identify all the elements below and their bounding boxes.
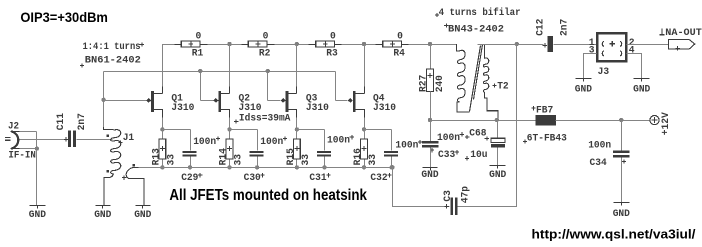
wire T2 to C12 xyxy=(478,44,517,46)
svg-text:1:4:1 turns: 1:4:1 turns xyxy=(83,42,141,53)
svg-text:J310: J310 xyxy=(373,103,396,114)
label Idss=39mA xyxy=(234,120,238,124)
wire J2 to ground xyxy=(36,149,38,206)
label 10u xyxy=(465,156,469,160)
svg-text:C68: C68 xyxy=(469,129,486,140)
wire J3 pin 4 to ground xyxy=(627,54,642,79)
terminal +12V xyxy=(650,116,659,125)
capacitor C3 47p xyxy=(444,204,448,208)
wire gate Q3 xyxy=(268,100,281,102)
svg-text:IF-IN: IF-IN xyxy=(8,151,36,162)
node R27 bottom xyxy=(428,118,432,122)
svg-text:GND: GND xyxy=(421,170,438,181)
ground GND under J1 source winding xyxy=(142,206,144,209)
svg-text:R14: R14 xyxy=(219,148,230,165)
node output feedback xyxy=(515,42,519,46)
ground GND under J2 xyxy=(37,206,39,209)
transformer T2 bifilar link xyxy=(470,46,481,112)
wire drain chain left corner xyxy=(163,45,182,94)
svg-text:R16: R16 xyxy=(353,148,364,165)
svg-text:47p: 47p xyxy=(461,186,472,203)
svg-text:J310: J310 xyxy=(306,103,329,114)
transistor Q1 J310 xyxy=(162,87,164,94)
node drain Q4 xyxy=(362,42,366,46)
node T2 bottom xyxy=(495,118,499,122)
connector J2 xyxy=(11,131,18,148)
node source Q1 xyxy=(160,127,164,131)
svg-text:2n7: 2n7 xyxy=(77,113,88,130)
transformer J1 winding xyxy=(104,127,114,130)
wire source Q4 xyxy=(364,118,366,130)
svg-text:0: 0 xyxy=(330,31,336,42)
polarity dot J1 source winding xyxy=(133,164,135,166)
connector J3 xyxy=(597,33,626,61)
resistor R16 33 xyxy=(364,130,366,140)
node cap 3 bottom xyxy=(322,165,326,169)
node C34 top xyxy=(619,118,623,122)
ground GND J3 pin 3 xyxy=(583,79,585,82)
capacitor bypass 100n stage 3 xyxy=(324,130,326,151)
node R15 bottom xyxy=(295,165,299,169)
resistor R27 240 xyxy=(430,45,432,70)
svg-text:4 turns bifilar: 4 turns bifilar xyxy=(439,7,521,19)
svg-text:R3: R3 xyxy=(326,49,338,60)
node source Q4 xyxy=(362,127,366,131)
wire J3 pin 3 to ground xyxy=(584,54,597,79)
svg-text:C34: C34 xyxy=(590,158,607,169)
svg-text:R1: R1 xyxy=(192,49,204,60)
node R27 top xyxy=(428,42,432,46)
transistor Q2 J310 xyxy=(229,87,231,94)
label 6T-FB43 xyxy=(523,140,527,144)
svg-text:BN43-2402: BN43-2402 xyxy=(448,24,504,35)
transformer T2 right winding xyxy=(483,44,485,59)
polarity dot J1 top xyxy=(107,134,109,136)
svg-text:6T-FB43: 6T-FB43 xyxy=(527,134,567,145)
svg-text:FB7: FB7 xyxy=(536,105,553,116)
svg-text:OIP3=+30dBm: OIP3=+30dBm xyxy=(20,10,108,26)
svg-text:C31: C31 xyxy=(309,173,326,184)
svg-text:4: 4 xyxy=(629,46,635,57)
wire drain Q2 xyxy=(229,45,231,87)
svg-text:GND: GND xyxy=(489,170,506,181)
resistor R1 0 ohm xyxy=(175,44,182,46)
svg-text:10u: 10u xyxy=(470,150,487,161)
node drain Q2 xyxy=(227,42,231,46)
svg-text:GND: GND xyxy=(613,209,630,220)
svg-text:T2: T2 xyxy=(497,82,509,93)
wire gate bus drop to J1 xyxy=(103,101,105,128)
node gate Q1 xyxy=(101,98,105,102)
node drain Q3 xyxy=(295,42,299,46)
node J2 ground junction xyxy=(35,146,39,150)
svg-text:C3: C3 xyxy=(443,190,454,202)
wire gate Q1 xyxy=(104,100,147,102)
node source Q2 xyxy=(227,127,231,131)
polarity dot J1 bottom xyxy=(107,170,109,172)
wire source bus to C3 xyxy=(390,165,394,169)
ground GND under J1 xyxy=(102,206,104,209)
node gate bus Q2 xyxy=(198,69,202,73)
svg-text:R27: R27 xyxy=(419,75,430,92)
capacitor C68 10u xyxy=(497,121,499,139)
node R14 bottom xyxy=(227,165,231,169)
label 4 turns bifilar xyxy=(435,13,439,17)
svg-text:GND: GND xyxy=(134,210,151,221)
svg-text:J1: J1 xyxy=(123,133,135,144)
svg-text:C33: C33 xyxy=(438,150,455,161)
wire C11 to J1 tap xyxy=(77,139,113,141)
wire source Q1 xyxy=(162,118,164,130)
svg-text:R2: R2 xyxy=(259,49,271,60)
label BN43-2402 xyxy=(444,24,448,28)
svg-text:C11: C11 xyxy=(56,113,67,130)
connector NA-OUT xyxy=(668,40,694,49)
capacitor bypass 100n stage 1 xyxy=(190,130,192,151)
label C68 xyxy=(465,135,469,139)
wire source bus xyxy=(139,167,393,169)
wire C3 to output node xyxy=(458,45,517,207)
node R16 bottom xyxy=(362,165,366,169)
transistor Q3 J310 xyxy=(296,87,298,94)
wire source node to cap 2 xyxy=(230,129,258,131)
wire R1 to R2 xyxy=(208,44,242,46)
svg-text:J3: J3 xyxy=(598,67,610,78)
wire gate bus xyxy=(104,71,336,73)
svg-text:0: 0 xyxy=(196,31,202,42)
svg-text:C29: C29 xyxy=(181,173,198,184)
wire source Q2 xyxy=(229,118,231,130)
capacitor C11 2n7 xyxy=(68,131,71,147)
svg-text:100n: 100n xyxy=(588,140,611,151)
wire source Q3 xyxy=(296,118,298,130)
ground GND J3 pin 4 xyxy=(641,79,643,82)
wire gate drop Q4 xyxy=(335,72,337,101)
resistor R14 33 xyxy=(229,130,231,140)
capacitor C34 100n xyxy=(621,121,623,151)
svg-text:J2: J2 xyxy=(8,121,19,132)
svg-text:100n: 100n xyxy=(395,141,418,152)
wire source node to cap 3 xyxy=(297,129,325,131)
transformer J1 source winding xyxy=(126,167,144,205)
svg-text:2n7: 2n7 xyxy=(559,19,570,36)
transistor Q4 J310 xyxy=(364,87,366,94)
svg-text:J310: J310 xyxy=(239,103,262,114)
capacitor bypass 100n stage 2 xyxy=(257,130,259,151)
ground GND under C33 xyxy=(430,168,432,171)
wire gate drop Q2 xyxy=(200,72,202,101)
svg-text:NA-OUT: NA-OUT xyxy=(665,28,702,39)
svg-text:240: 240 xyxy=(435,75,446,92)
wire R2 to R3 xyxy=(275,44,309,46)
wire drain Q1 xyxy=(162,45,164,87)
svg-text:J310: J310 xyxy=(171,103,194,114)
svg-text:GND: GND xyxy=(633,85,650,96)
wire supply bus xyxy=(431,120,536,122)
label J1 xyxy=(119,141,123,145)
svg-text:BN61-2402: BN61-2402 xyxy=(85,55,141,66)
svg-text:3: 3 xyxy=(589,46,595,57)
resistor R2 0 ohm xyxy=(242,44,249,46)
wire gate Q4 xyxy=(336,100,348,102)
capacitor bypass 100n stage 4 xyxy=(391,130,393,151)
svg-text:R4: R4 xyxy=(393,49,405,60)
svg-text:All JFETs mounted on heatsink: All JFETs mounted on heatsink xyxy=(169,187,367,204)
svg-text:100n: 100n xyxy=(327,136,350,147)
label T2 xyxy=(492,84,496,88)
ferrite bead FB7 xyxy=(535,120,537,122)
wire gate drop Q3 xyxy=(267,72,269,101)
node R13 bottom xyxy=(160,165,164,169)
svg-text:C30: C30 xyxy=(244,173,261,184)
svg-text:33: 33 xyxy=(368,154,379,166)
svg-text:C12: C12 xyxy=(536,19,547,36)
resistor R15 33 xyxy=(296,130,298,140)
wire drain Q3 xyxy=(296,45,298,87)
svg-text:C32: C32 xyxy=(370,173,387,184)
label FB7 xyxy=(531,106,535,110)
resistor R13 33 xyxy=(162,130,164,140)
node cap 4 bottom xyxy=(389,165,393,169)
svg-text:33: 33 xyxy=(301,154,312,166)
node gate bus Q3 xyxy=(266,69,270,73)
wire source node to cap 1 xyxy=(163,129,191,131)
svg-text:0: 0 xyxy=(263,31,269,42)
wire gate Q2 xyxy=(201,100,214,102)
capacitor C12 2n7 xyxy=(543,43,547,47)
svg-text:100n: 100n xyxy=(437,133,460,144)
svg-text:33: 33 xyxy=(167,154,178,166)
resistor R4 0 ohm xyxy=(376,44,383,46)
node source Q3 xyxy=(295,127,299,131)
label NA-OUT xyxy=(660,28,665,34)
svg-text:0: 0 xyxy=(397,31,403,42)
wire R3 to R4 xyxy=(342,44,376,46)
node cap 1 bottom xyxy=(188,165,192,169)
transformer T2 left winding xyxy=(457,44,460,51)
svg-text:http://www.qsl.net/va3iul/: http://www.qsl.net/va3iul/ xyxy=(532,226,696,241)
svg-text:GND: GND xyxy=(29,210,46,221)
svg-text:GND: GND xyxy=(94,210,111,221)
svg-text:33: 33 xyxy=(234,154,245,166)
ground GND under C34 xyxy=(621,203,623,206)
svg-text:Idss=39mA: Idss=39mA xyxy=(239,112,291,124)
svg-text:100n: 100n xyxy=(193,137,216,148)
wire R4 to R27 node xyxy=(409,44,457,46)
wire source node to cap 4 xyxy=(365,129,392,131)
wire drain Q4 xyxy=(364,45,366,87)
svg-text:R13: R13 xyxy=(152,148,163,165)
capacitor C33 100n xyxy=(430,121,432,142)
svg-text:R15: R15 xyxy=(286,148,297,165)
wire J3 pin 2 to NA-OUT xyxy=(627,44,669,46)
resistor R3 0 ohm xyxy=(309,44,316,46)
ground GND under C68 xyxy=(497,166,499,169)
node cap 2 bottom xyxy=(255,165,259,169)
wire J2 to C11 xyxy=(20,139,68,141)
svg-text:+12V: +12V xyxy=(661,111,672,135)
svg-text:GND: GND xyxy=(575,85,592,96)
svg-text:100n: 100n xyxy=(260,137,283,148)
